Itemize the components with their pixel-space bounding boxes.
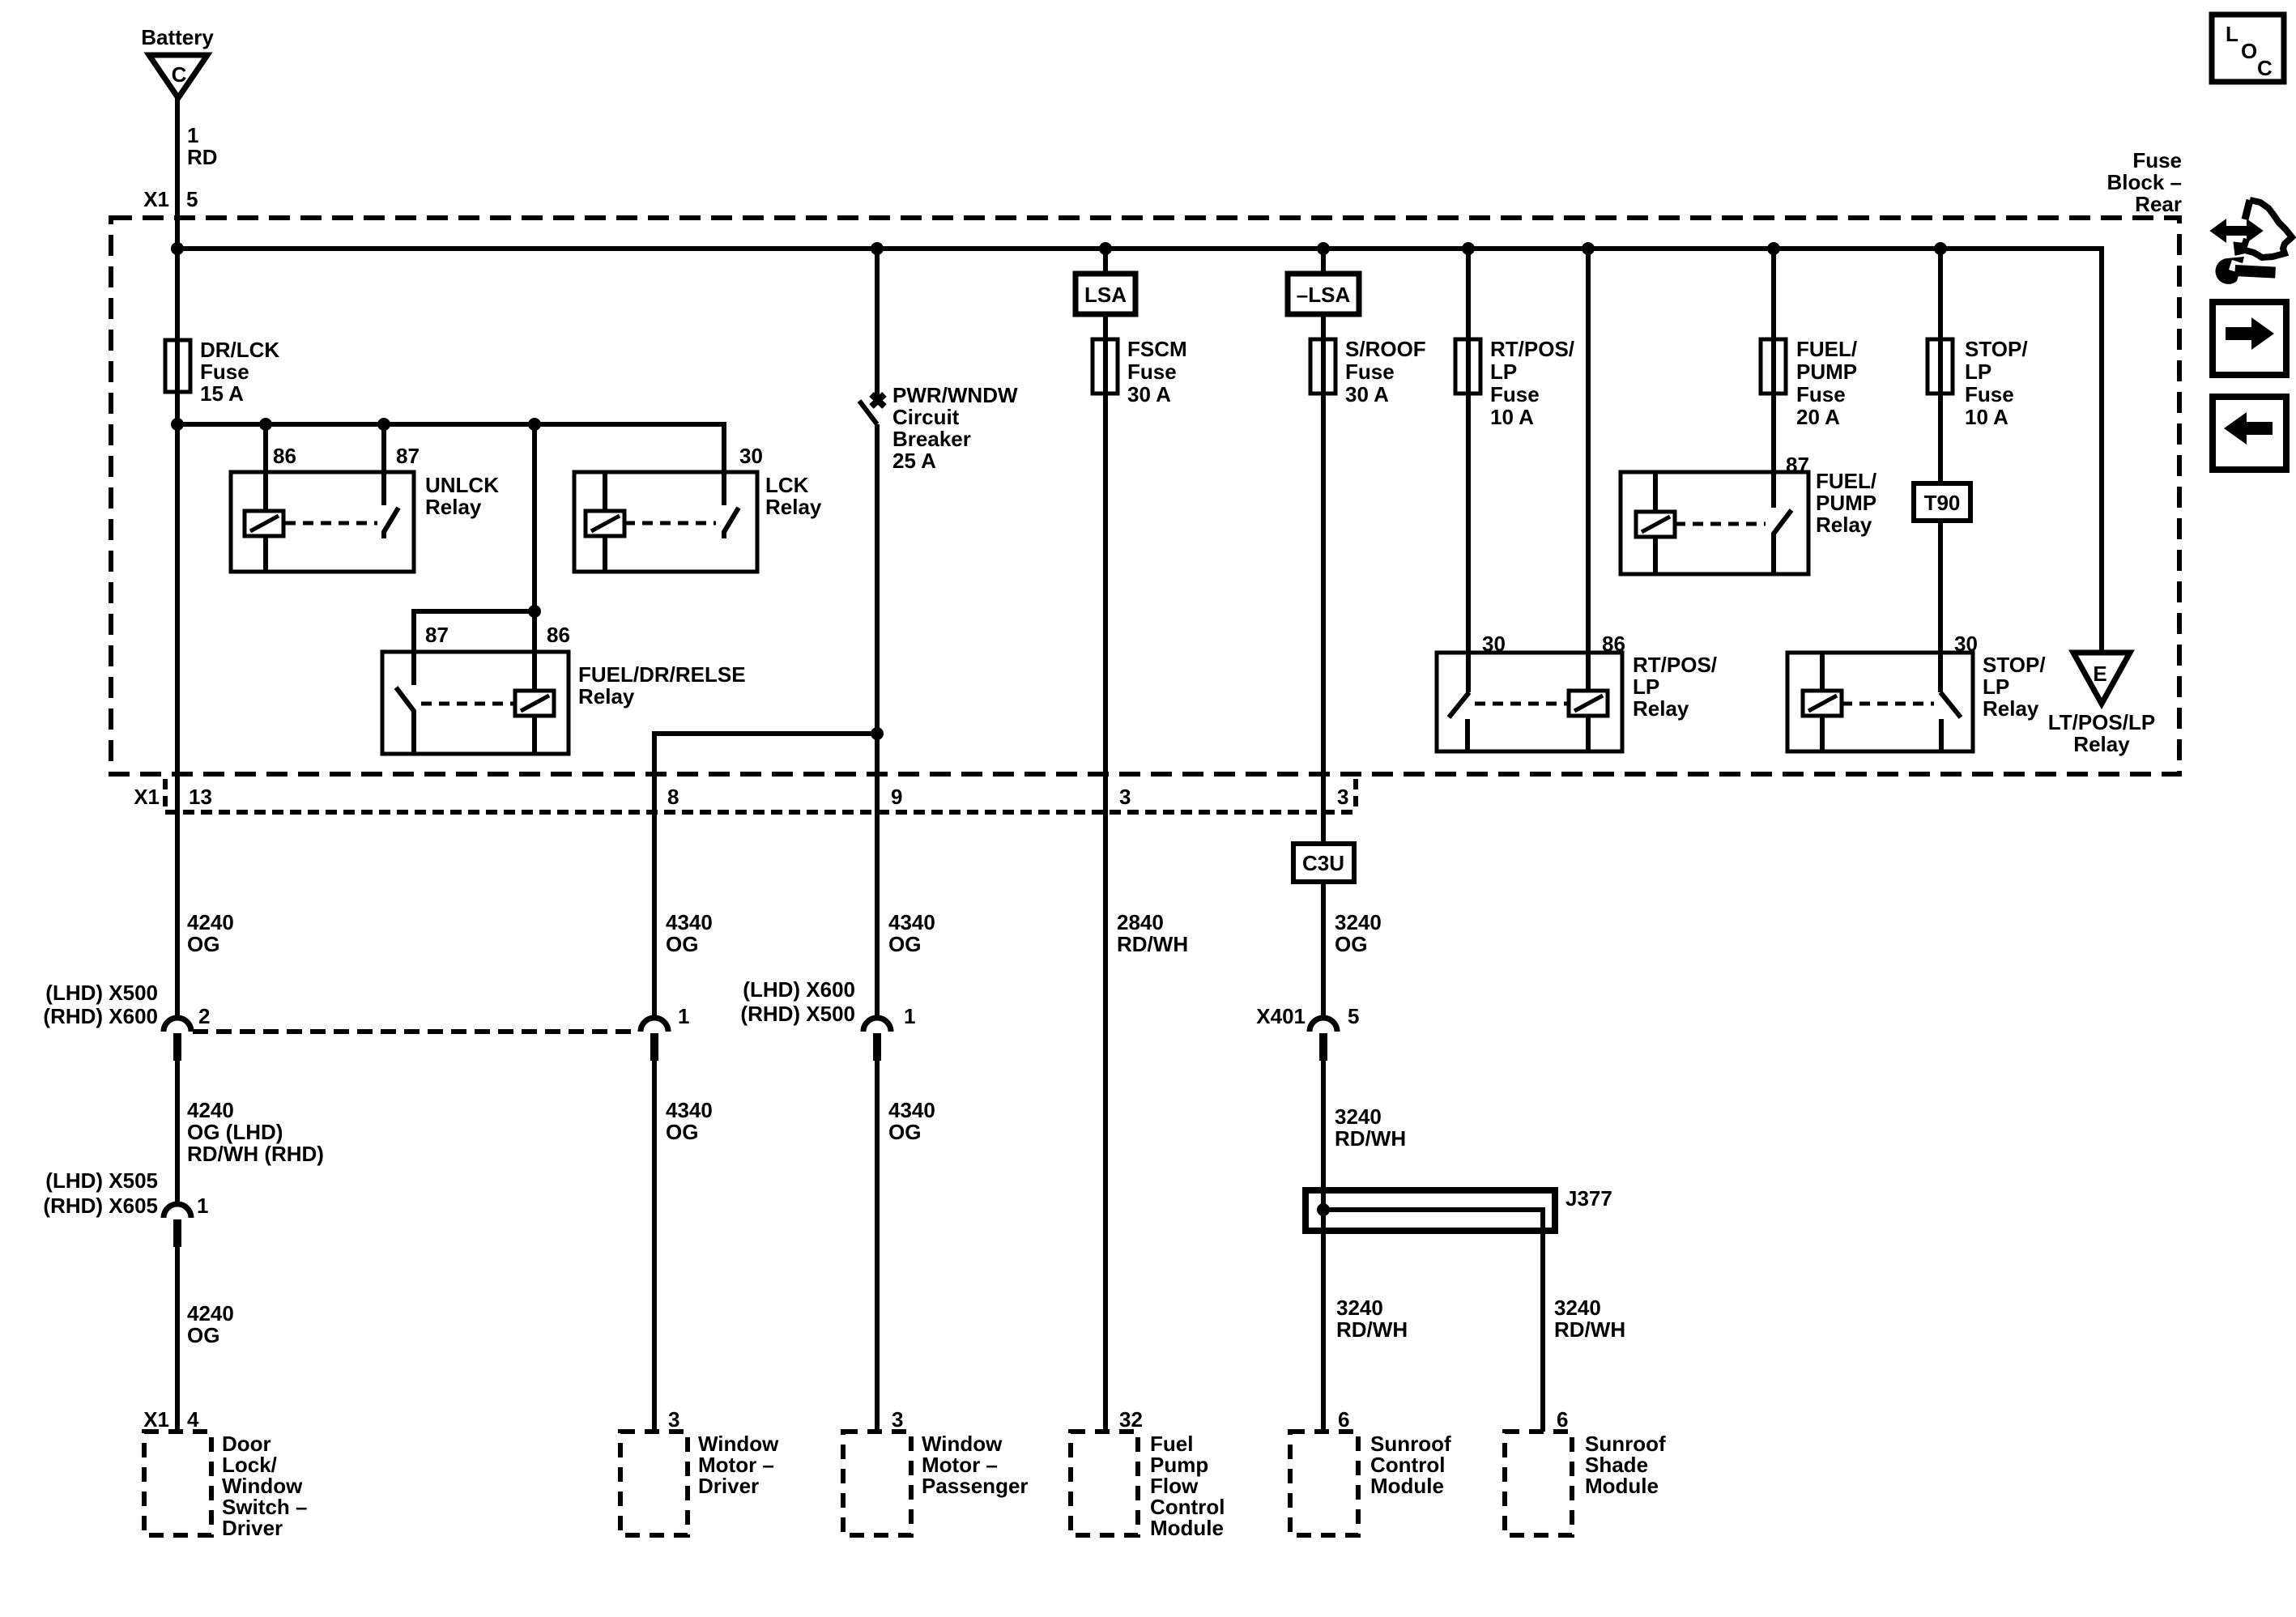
svg-text:Fuse: Fuse <box>1796 382 1846 406</box>
fuse FUEL/PUMP 20 A <box>1761 337 1857 429</box>
svg-text:25 A: 25 A <box>892 449 936 473</box>
svg-text:Relay: Relay <box>2073 732 2130 756</box>
svg-text:L: L <box>2226 22 2238 46</box>
svg-text:OG: OG <box>888 932 921 956</box>
svg-text:Fuse: Fuse <box>200 360 249 384</box>
svg-text:C: C <box>2257 56 2273 80</box>
node breaker-window jog <box>871 727 884 740</box>
wire LSA to fuse <box>1103 249 1108 1432</box>
svg-text:20 A: 20 A <box>1796 405 1840 429</box>
svg-text:4240: 4240 <box>187 910 234 934</box>
svg-text:4240: 4240 <box>187 1301 234 1326</box>
svg-text:87: 87 <box>425 623 449 647</box>
connector C3U <box>1293 844 1354 882</box>
relay FUEL/DR/RELSE <box>382 424 746 754</box>
svg-text:DR/LCK: DR/LCK <box>200 338 279 362</box>
connector X500/X600 window motor driver pin 1 <box>641 1004 689 1432</box>
svg-text:LP: LP <box>1490 360 1517 384</box>
svg-text:6: 6 <box>1338 1407 1349 1432</box>
svg-text:Relay: Relay <box>578 684 635 709</box>
connector X505/X605 pin 1 <box>43 1168 208 1432</box>
dashed connector tie line <box>193 1029 639 1034</box>
svg-text:8: 8 <box>667 785 679 809</box>
module Fuel Pump Flow Control Module <box>1071 1407 1225 1540</box>
svg-text:10 A: 10 A <box>1490 405 1534 429</box>
svg-text:PUMP: PUMP <box>1796 360 1857 384</box>
svg-text:9: 9 <box>891 785 902 809</box>
svg-text:3: 3 <box>1337 785 1348 809</box>
svg-text:LP: LP <box>1983 674 2009 699</box>
node bus-battery <box>171 242 184 255</box>
fuse minus-LSA holder <box>1288 274 1359 314</box>
fuse FSCM 30 A <box>1093 337 1187 406</box>
relay LT/POS/LP feed triangle E <box>2048 653 2155 756</box>
svg-text:30 A: 30 A <box>1345 382 1389 406</box>
node bus minus-LSA <box>1317 242 1330 255</box>
svg-text:Relay: Relay <box>1633 696 1689 721</box>
backward reference arrow box <box>2213 397 2286 470</box>
svg-text:3240: 3240 <box>1336 1296 1383 1320</box>
svg-text:RD: RD <box>187 145 218 169</box>
svg-text:32: 32 <box>1119 1407 1143 1432</box>
svg-text:RD/WH: RD/WH <box>1336 1317 1408 1342</box>
fuse LSA holder <box>1076 274 1135 314</box>
svg-text:2: 2 <box>198 1004 210 1028</box>
svg-text:STOP/: STOP/ <box>1983 653 2046 677</box>
svg-text:3240: 3240 <box>1554 1296 1601 1320</box>
svg-text:(LHD) X505: (LHD) X505 <box>45 1168 158 1193</box>
svg-text:Fuse: Fuse <box>1965 382 2014 406</box>
module Door Lock/Window Switch - Driver <box>143 1407 307 1540</box>
service info icon (car with double arrow and wrench) <box>2211 200 2292 284</box>
relay LCK <box>574 472 822 572</box>
svg-text:(RHD) X600: (RHD) X600 <box>43 1004 158 1028</box>
svg-text:PUMP: PUMP <box>1816 491 1876 515</box>
svg-text:(RHD) X500: (RHD) X500 <box>740 1002 855 1026</box>
wire S/ROOF column <box>1321 249 1326 1018</box>
main feed bus wire <box>177 249 2102 653</box>
svg-text:X1: X1 <box>143 187 169 211</box>
svg-text:30 A: 30 A <box>1127 382 1171 406</box>
svg-text:RD/WH: RD/WH <box>1554 1317 1625 1342</box>
svg-text:PWR/WNDW: PWR/WNDW <box>892 383 1018 407</box>
node y524 UNLCK 87 <box>377 418 390 431</box>
svg-text:C3U: C3U <box>1302 851 1344 875</box>
node bus RT/POS/LP relay 86 <box>1582 242 1595 255</box>
svg-text:RD/WH (RHD): RD/WH (RHD) <box>187 1142 324 1166</box>
forward reference arrow box <box>2213 302 2286 375</box>
svg-text:Fuse: Fuse <box>1490 382 1540 406</box>
svg-text:86: 86 <box>547 623 570 647</box>
svg-text:X1: X1 <box>134 785 160 809</box>
svg-text:OG: OG <box>187 932 219 956</box>
svg-text:T90: T90 <box>1924 491 1961 515</box>
battery feed triangle C <box>141 25 214 98</box>
svg-text:Relay: Relay <box>425 495 482 519</box>
svg-text:(LHD) X600: (LHD) X600 <box>743 977 855 1002</box>
svg-text:3: 3 <box>1119 785 1131 809</box>
svg-text:3240: 3240 <box>1335 910 1382 934</box>
LOC reference box <box>2212 15 2284 82</box>
svg-text:86: 86 <box>273 444 296 468</box>
node y524 UNLCK 86 <box>259 418 272 431</box>
wire STOP/LP fuse to relay <box>1938 249 1943 692</box>
wire FUEL/PUMP fuse to relay <box>1771 249 1776 508</box>
svg-text:FSCM: FSCM <box>1127 337 1187 361</box>
wire 1 RD from battery <box>175 98 180 1018</box>
node y524 left <box>171 418 184 431</box>
relay FUEL/PUMP <box>1621 469 1876 574</box>
svg-text:X401: X401 <box>1256 1004 1306 1028</box>
svg-text:Relay: Relay <box>765 495 822 519</box>
svg-text:3: 3 <box>892 1407 903 1432</box>
fuse DR/LCK 15 A <box>165 338 279 406</box>
relay STOP/LP <box>1787 653 2046 751</box>
svg-text:Module: Module <box>1370 1474 1444 1498</box>
svg-text:LSA: LSA <box>1084 283 1127 307</box>
wire jog to window motor driver <box>654 734 877 1018</box>
svg-text:Circuit: Circuit <box>892 405 960 429</box>
svg-text:RT/POS/: RT/POS/ <box>1633 653 1717 677</box>
svg-text:RD/WH: RD/WH <box>1335 1126 1406 1151</box>
svg-text:C: C <box>172 62 187 87</box>
module Window Motor - Driver <box>620 1407 779 1535</box>
relay RT/POS/LP <box>1437 653 1717 751</box>
fuse block exit connector strip X1 <box>134 779 1356 812</box>
svg-text:OG: OG <box>888 1120 921 1144</box>
module Sunroof Control Module <box>1290 1407 1451 1535</box>
relay UNLCK <box>231 424 499 572</box>
connector X500/X600 driver side <box>43 981 210 1204</box>
relay feed wire at y524 <box>177 424 724 505</box>
svg-text:J377: J377 <box>1565 1186 1612 1211</box>
svg-text:87: 87 <box>396 444 420 468</box>
connector X401 pin 5 <box>1256 1004 1359 1432</box>
svg-text:4240: 4240 <box>187 1098 234 1122</box>
svg-text:O: O <box>2241 39 2257 63</box>
svg-text:Breaker: Breaker <box>892 427 971 451</box>
fuse block dashed border <box>111 218 2179 774</box>
svg-text:Rear: Rear <box>2135 192 2182 216</box>
svg-text:UNLCK: UNLCK <box>425 473 499 497</box>
svg-text:5: 5 <box>1348 1004 1359 1028</box>
svg-text:6: 6 <box>1557 1407 1568 1432</box>
svg-text:(RHD) X605: (RHD) X605 <box>43 1194 158 1218</box>
node bus STOP/LP fuse <box>1934 242 1947 255</box>
node bus-breaker <box>871 242 884 255</box>
svg-text:OG (LHD): OG (LHD) <box>187 1120 283 1144</box>
fuse RT/POS/LP 10 A <box>1455 337 1574 429</box>
circuit breaker PWR/WNDW 25 A <box>859 249 1018 1018</box>
svg-text:–LSA: –LSA <box>1297 283 1351 307</box>
svg-text:(LHD) X500: (LHD) X500 <box>45 981 158 1005</box>
svg-text:Fuse: Fuse <box>1127 360 1177 384</box>
svg-text:4340: 4340 <box>888 910 935 934</box>
svg-text:LP: LP <box>1965 360 1991 384</box>
svg-text:Block –: Block – <box>2107 170 2183 194</box>
label Fuse Block - Rear <box>2107 148 2183 216</box>
node bus FUEL/PUMP fuse <box>1767 242 1780 255</box>
node bus-LSA <box>1099 242 1112 255</box>
svg-text:FUEL/: FUEL/ <box>1816 469 1876 493</box>
splice pack J377 <box>1306 1186 1612 1432</box>
svg-text:E: E <box>2093 662 2106 686</box>
svg-text:Fuse: Fuse <box>1345 360 1395 384</box>
node bus RT/POS/LP fuse <box>1462 242 1475 255</box>
svg-text:15 A: 15 A <box>200 381 244 406</box>
module Sunroof Shade Module <box>1505 1407 1666 1535</box>
svg-text:4: 4 <box>187 1407 199 1432</box>
svg-text:Relay: Relay <box>1983 696 2039 721</box>
svg-text:LCK: LCK <box>765 473 809 497</box>
svg-text:10 A: 10 A <box>1965 405 2008 429</box>
svg-text:Driver: Driver <box>698 1474 759 1498</box>
svg-text:OG: OG <box>666 932 698 956</box>
module Window Motor - Passenger <box>843 1407 1029 1535</box>
node y524 FUEL/DR/RELSE <box>528 418 541 431</box>
svg-text:1: 1 <box>904 1004 915 1028</box>
connector X600/X500 window motor passenger pin 1 <box>740 977 915 1432</box>
svg-text:Battery: Battery <box>141 25 214 49</box>
svg-text:1: 1 <box>197 1194 208 1218</box>
svg-text:Module: Module <box>1585 1474 1659 1498</box>
svg-text:Relay: Relay <box>1816 513 1872 537</box>
svg-text:4340: 4340 <box>666 910 713 934</box>
svg-text:FUEL/DR/RELSE: FUEL/DR/RELSE <box>578 662 746 687</box>
svg-text:OG: OG <box>187 1323 219 1347</box>
svg-text:1: 1 <box>187 123 198 147</box>
wire RT/POS/LP relay 86 <box>1586 249 1591 691</box>
svg-text:13: 13 <box>189 785 212 809</box>
svg-text:Passenger: Passenger <box>922 1474 1029 1498</box>
svg-text:FUEL/: FUEL/ <box>1796 337 1857 361</box>
svg-text:OG: OG <box>1335 932 1367 956</box>
svg-text:Module: Module <box>1150 1516 1224 1540</box>
svg-text:5: 5 <box>186 187 198 211</box>
svg-text:Driver: Driver <box>222 1516 283 1540</box>
fuse S/ROOF 30 A <box>1310 337 1426 406</box>
svg-text:4340: 4340 <box>888 1098 935 1122</box>
svg-text:2840: 2840 <box>1117 910 1164 934</box>
wire RT/POS/LP fuse to relay <box>1466 249 1471 692</box>
connector T90 <box>1914 483 1970 521</box>
svg-text:3: 3 <box>668 1407 679 1432</box>
svg-text:LP: LP <box>1633 674 1659 699</box>
fuse STOP/LP 10 A <box>1928 337 2028 429</box>
svg-text:X1: X1 <box>143 1407 169 1432</box>
svg-text:RD/WH: RD/WH <box>1117 932 1188 956</box>
svg-text:S/ROOF: S/ROOF <box>1345 337 1426 361</box>
svg-text:OG: OG <box>666 1120 698 1144</box>
svg-text:3240: 3240 <box>1335 1104 1382 1129</box>
svg-text:4340: 4340 <box>666 1098 713 1122</box>
svg-text:STOP/: STOP/ <box>1965 337 2028 361</box>
svg-text:1: 1 <box>678 1004 689 1028</box>
svg-text:RT/POS/: RT/POS/ <box>1490 337 1574 361</box>
svg-text:30: 30 <box>739 444 763 468</box>
svg-text:LT/POS/LP: LT/POS/LP <box>2048 710 2155 734</box>
svg-text:Fuse: Fuse <box>2132 148 2182 172</box>
